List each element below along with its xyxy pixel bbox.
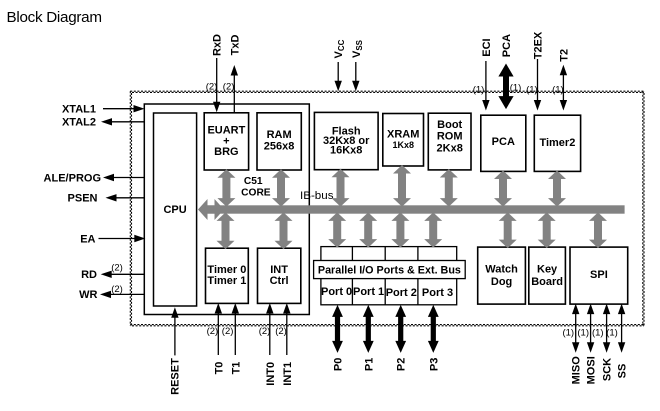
svg-text:RESET: RESET xyxy=(170,358,182,395)
svg-text:Key: Key xyxy=(537,264,558,276)
svg-text:WR: WR xyxy=(79,289,97,301)
signal T1 xyxy=(232,303,239,355)
bus IB-bus bar xyxy=(216,205,625,213)
svg-text:(1): (1) xyxy=(592,327,604,338)
signal XTAL2 xyxy=(101,118,144,125)
bus arrow XRAM xyxy=(393,165,411,207)
block Watch Dog xyxy=(478,247,526,304)
block Timer2 xyxy=(534,115,580,171)
svg-text:T2EX: T2EX xyxy=(533,31,545,59)
svg-text:Ctrl: Ctrl xyxy=(270,275,289,287)
svg-text:C51: C51 xyxy=(244,176,263,187)
svg-text:(2): (2) xyxy=(223,81,235,92)
bus arrow CPU to IB-bus xyxy=(198,199,224,220)
bus arrow Timer2 xyxy=(548,171,566,207)
svg-text:Block Diagram: Block Diagram xyxy=(7,9,103,26)
signal T2EX xyxy=(534,59,541,111)
svg-text:Timer2: Timer2 xyxy=(539,137,575,149)
signal INT0 xyxy=(266,303,273,355)
svg-text:(1): (1) xyxy=(606,327,618,338)
svg-text:Watch: Watch xyxy=(485,264,518,276)
svg-text:(2): (2) xyxy=(222,326,234,337)
block INT Ctrl xyxy=(258,248,301,303)
signal INT1 xyxy=(283,303,290,355)
signal WR xyxy=(100,291,144,298)
svg-text:XRAM: XRAM xyxy=(387,129,419,141)
bus arrow Port 3 xyxy=(424,212,442,247)
svg-text:(2): (2) xyxy=(111,262,123,273)
signal RD xyxy=(101,271,145,278)
svg-text:(2): (2) xyxy=(206,81,218,92)
svg-text:ALE/PROG: ALE/PROG xyxy=(44,172,101,184)
bus arrow Port 1 xyxy=(359,212,377,247)
svg-text:RxD: RxD xyxy=(212,34,224,56)
svg-text:(1): (1) xyxy=(473,84,485,95)
svg-text:PCA: PCA xyxy=(501,34,513,57)
svg-text:PCA: PCA xyxy=(492,136,515,148)
svg-text:Port 3: Port 3 xyxy=(422,287,453,299)
svg-text:1Kx8: 1Kx8 xyxy=(392,140,414,150)
chip boundary (dashed) xyxy=(130,91,644,326)
svg-text:ECI: ECI xyxy=(481,38,493,56)
bus arrow Key Board xyxy=(538,212,556,248)
svg-text:TxD: TxD xyxy=(229,35,241,56)
svg-text:Dog: Dog xyxy=(491,276,512,288)
signal TxD xyxy=(231,65,238,113)
svg-text:(2): (2) xyxy=(275,326,287,337)
C51 CORE group rect xyxy=(144,104,309,315)
signal ECI xyxy=(482,61,489,111)
svg-text:CORE: CORE xyxy=(241,188,271,199)
signal RESET xyxy=(171,307,178,355)
svg-text:XTAL1: XTAL1 xyxy=(62,103,96,115)
signal MISO xyxy=(572,304,579,353)
svg-text:SS: SS xyxy=(617,364,629,379)
svg-text:Board: Board xyxy=(531,276,563,288)
svg-text:Port 2: Port 2 xyxy=(386,287,417,299)
svg-text:(1): (1) xyxy=(510,82,522,93)
svg-text:(2): (2) xyxy=(259,326,271,337)
svg-text:BRG: BRG xyxy=(214,146,238,158)
svg-text:(1): (1) xyxy=(562,327,574,338)
svg-text:INT0: INT0 xyxy=(265,362,277,386)
signal T2 xyxy=(560,65,567,111)
svg-text:RAM: RAM xyxy=(267,129,292,141)
svg-text:RD: RD xyxy=(81,269,97,281)
bus arrow PCA xyxy=(494,171,512,207)
bus arrow SPI xyxy=(589,212,607,248)
block EUART+BRG xyxy=(204,113,248,170)
svg-text:(2): (2) xyxy=(111,284,123,295)
signal P0 (thick) xyxy=(332,305,343,353)
svg-text:2Kx8: 2Kx8 xyxy=(437,142,463,154)
signal ALE/PROG xyxy=(103,174,144,181)
svg-text:P2: P2 xyxy=(396,358,408,371)
bus arrow Boot ROM xyxy=(440,169,458,207)
svg-text:(1): (1) xyxy=(552,84,564,95)
svg-text:PSEN: PSEN xyxy=(68,193,98,205)
svg-text:(2): (2) xyxy=(207,326,219,337)
bus arrow Timer 0/1 xyxy=(217,212,235,249)
svg-text:INT1: INT1 xyxy=(282,362,294,386)
svg-text:Parallel I/O Ports & Ext. Bus: Parallel I/O Ports & Ext. Bus xyxy=(318,265,461,277)
svg-text:Port 0: Port 0 xyxy=(321,286,352,298)
block XRAM 1Kx8 xyxy=(383,114,424,167)
svg-text:16Kx8: 16Kx8 xyxy=(330,145,362,157)
svg-text:SCK: SCK xyxy=(602,358,614,381)
svg-text:EA: EA xyxy=(80,233,95,245)
signal MOSI xyxy=(587,304,594,353)
block PCA xyxy=(481,115,526,171)
block Key Board xyxy=(529,247,566,304)
svg-text:XTAL2: XTAL2 xyxy=(62,117,96,129)
bus arrow EUART xyxy=(217,169,235,206)
bus arrow Port 2 xyxy=(391,212,409,247)
block SPI xyxy=(570,247,628,304)
signal RxD xyxy=(213,58,220,112)
block Boot ROM 2Kx8 xyxy=(428,113,471,170)
block CPU xyxy=(154,113,197,306)
svg-text:(1): (1) xyxy=(526,84,538,95)
svg-text:256x8: 256x8 xyxy=(264,141,295,153)
block RAM 256x8 xyxy=(257,113,301,170)
svg-text:T1: T1 xyxy=(230,362,242,375)
svg-text:MOSI: MOSI xyxy=(586,356,598,384)
signal Vcc xyxy=(335,62,342,91)
svg-text:P0: P0 xyxy=(333,358,345,371)
bus arrow INT Ctrl xyxy=(275,212,293,249)
ports container (Port0-3 columns) xyxy=(321,247,457,305)
svg-text:MISO: MISO xyxy=(571,356,583,385)
svg-text:Port 1: Port 1 xyxy=(353,286,384,298)
signal SS xyxy=(618,304,625,353)
svg-text:ROM: ROM xyxy=(437,131,463,143)
svg-text:Timer 1: Timer 1 xyxy=(207,275,246,287)
signal SCK xyxy=(603,304,610,353)
signal PSEN xyxy=(106,194,145,201)
bus arrow RAM xyxy=(272,169,290,206)
svg-text:CPU: CPU xyxy=(163,204,186,216)
bus arrow Flash xyxy=(332,169,350,207)
label C51 CORE xyxy=(241,176,271,199)
signal P2 (thick) xyxy=(395,305,406,353)
signal P1 (thick) xyxy=(363,305,374,353)
svg-text:SPI: SPI xyxy=(590,269,608,281)
block Parallel I/O Ports & Ext. Bus xyxy=(314,261,466,279)
svg-text:IB-bus: IB-bus xyxy=(300,190,334,202)
signal XTAL1 xyxy=(103,105,145,112)
svg-text:Boot: Boot xyxy=(437,119,462,131)
signal PCA (thick) xyxy=(498,64,513,110)
signal T0 xyxy=(215,303,222,355)
svg-text:P3: P3 xyxy=(428,358,440,371)
bus arrow Watch Dog xyxy=(499,212,517,248)
block Timer 0 Timer 1 xyxy=(206,248,249,303)
svg-text:P1: P1 xyxy=(363,358,375,371)
signal P3 (thick) xyxy=(428,305,439,353)
svg-text:T0: T0 xyxy=(213,362,225,375)
signal Vss xyxy=(352,62,359,91)
block Flash 32Kx8 or 16Kx8 xyxy=(314,112,378,169)
svg-text:(1): (1) xyxy=(577,327,589,338)
signal EA xyxy=(99,235,146,242)
svg-text:T2: T2 xyxy=(558,49,570,62)
bus arrow Port 0 xyxy=(328,212,346,247)
